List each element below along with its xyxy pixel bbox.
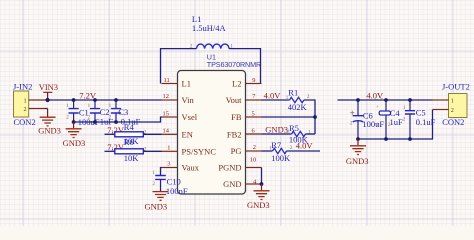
pin 14 EN bbox=[162, 127, 193, 139]
svg-text:+: + bbox=[376, 105, 379, 110]
svg-text:100K: 100K bbox=[271, 153, 291, 163]
wire R4 right to EN bbox=[144, 133, 162, 135]
node VIN3 junction bbox=[46, 98, 50, 102]
node C6 top bbox=[356, 98, 360, 102]
svg-text:4.0V: 4.0V bbox=[264, 91, 282, 101]
svg-text:11: 11 bbox=[164, 77, 170, 84]
wire PGND/GND down bbox=[261, 168, 263, 185]
connector J-IN2 bbox=[13, 81, 36, 127]
node FB junction bbox=[313, 115, 317, 119]
wire Vout to R1 bbox=[262, 99, 290, 101]
svg-text:Vsel: Vsel bbox=[182, 112, 198, 122]
svg-text:0.1uF: 0.1uF bbox=[416, 117, 436, 127]
resistor R6 bbox=[111, 137, 147, 163]
resistor R7 bbox=[269, 140, 293, 163]
svg-text:TPS63070RNMR: TPS63070RNMR bbox=[207, 60, 261, 69]
svg-text:1: 1 bbox=[24, 97, 27, 104]
svg-text:FB: FB bbox=[231, 112, 242, 122]
svg-text:GND3: GND3 bbox=[265, 124, 288, 134]
resistor R5 bbox=[287, 123, 311, 145]
node C2 bottom bbox=[93, 120, 97, 124]
svg-text:6: 6 bbox=[252, 127, 255, 134]
ground GND3 (C10) bbox=[145, 192, 169, 212]
svg-text:Vin: Vin bbox=[182, 95, 195, 105]
wire R5 to FB node bbox=[306, 133, 316, 135]
svg-text:15: 15 bbox=[163, 110, 169, 117]
resistor R1 bbox=[286, 88, 310, 112]
svg-text:2: 2 bbox=[253, 144, 256, 151]
ground GND3 (output) bbox=[346, 139, 369, 166]
node C6 bottom bbox=[356, 137, 360, 141]
connector J-OUT2 bbox=[442, 81, 470, 127]
svg-text:3: 3 bbox=[167, 161, 170, 168]
power port VIN3 bbox=[39, 82, 58, 100]
svg-text:2: 2 bbox=[24, 106, 27, 113]
pin 11 L1 bbox=[162, 77, 191, 89]
node C2 top bbox=[93, 98, 97, 102]
svg-text:R4: R4 bbox=[124, 122, 135, 132]
node C4 top bbox=[384, 98, 388, 102]
pin 2 PG bbox=[231, 144, 262, 156]
svg-text:L1: L1 bbox=[182, 79, 191, 89]
svg-text:PGND: PGND bbox=[218, 163, 241, 173]
pin 9 L2 bbox=[232, 77, 261, 89]
pin 1 PS/SYNC bbox=[162, 144, 217, 156]
capacitor C3 bbox=[109, 100, 141, 126]
svg-text:10K: 10K bbox=[124, 153, 140, 163]
svg-text:J-IN2: J-IN2 bbox=[13, 81, 32, 91]
svg-text:1uF: 1uF bbox=[390, 117, 404, 127]
pin 1 stub of J-IN2 bbox=[29, 99, 45, 101]
resistor R4 bbox=[111, 122, 147, 146]
svg-text:CON2: CON2 bbox=[14, 117, 36, 127]
ground GND3 (IC) bbox=[247, 184, 270, 210]
svg-text:GND3: GND3 bbox=[346, 156, 369, 166]
node PGND/GND junction bbox=[260, 182, 264, 186]
pin 5 FB bbox=[231, 110, 261, 122]
wire 4.0V output rail bbox=[338, 99, 433, 101]
capacitor C1 bbox=[66, 100, 100, 127]
capacitor C10 bbox=[153, 168, 188, 196]
ground GND3 (cap bank) bbox=[63, 122, 86, 148]
capacitor C5 bbox=[403, 100, 436, 139]
svg-text:CON2: CON2 bbox=[442, 117, 464, 127]
node C1 bottom bbox=[72, 120, 76, 124]
pin 3 Vaux bbox=[162, 161, 200, 173]
svg-text:EN: EN bbox=[182, 129, 193, 139]
svg-text:Vout: Vout bbox=[226, 95, 243, 105]
svg-text:C10: C10 bbox=[167, 176, 181, 186]
node C1 top bbox=[72, 98, 76, 102]
node C3 bottom bbox=[114, 120, 118, 124]
svg-text:C3: C3 bbox=[118, 107, 128, 117]
svg-text:FB2: FB2 bbox=[227, 129, 242, 139]
node C5 bottom bbox=[408, 137, 412, 141]
wire PG to R7 bbox=[262, 150, 273, 152]
wire R6 right to PS/SYNC bbox=[144, 150, 162, 152]
svg-text:1.5uH/4A: 1.5uH/4A bbox=[192, 23, 227, 33]
pin 4 GND bbox=[223, 178, 261, 189]
ground GND3 (J-IN2 pin2) bbox=[38, 109, 61, 136]
pin 10 PGND bbox=[218, 157, 261, 173]
wire output bottom rail bbox=[358, 110, 433, 140]
svg-text:VIN3: VIN3 bbox=[39, 82, 58, 92]
pin 15 Vsel bbox=[162, 110, 198, 122]
wire FB to node bbox=[262, 116, 316, 118]
svg-text:100uF: 100uF bbox=[362, 119, 384, 129]
pin 7 Vout bbox=[226, 93, 262, 105]
pin 12 Vin bbox=[162, 93, 195, 105]
svg-text:R7: R7 bbox=[271, 140, 281, 150]
svg-text:10: 10 bbox=[250, 157, 256, 164]
svg-text:R1: R1 bbox=[288, 88, 298, 98]
svg-text:Vaux: Vaux bbox=[182, 163, 200, 173]
capacitor C6 bbox=[350, 100, 385, 139]
wire FB2 to R5 bbox=[262, 133, 292, 135]
svg-text:5: 5 bbox=[252, 110, 255, 117]
capacitor C2 bbox=[88, 100, 114, 127]
svg-text:12: 12 bbox=[163, 93, 169, 100]
node C5 top bbox=[408, 98, 412, 102]
svg-text:4.0V: 4.0V bbox=[296, 140, 314, 150]
wire capacitor bottom rail bbox=[74, 117, 162, 122]
wire R1 to FB node bbox=[304, 100, 315, 134]
inductor L1 bbox=[161, 14, 261, 84]
op-amp U1 TPS63070RNMR body bbox=[178, 53, 262, 194]
wire VIN3 rail bbox=[45, 99, 162, 101]
svg-text:402K: 402K bbox=[288, 102, 308, 112]
svg-text:L2: L2 bbox=[232, 79, 241, 89]
node C3 top bbox=[114, 98, 118, 102]
svg-text:1: 1 bbox=[451, 98, 454, 105]
node C4 bottom bbox=[384, 137, 388, 141]
wire pin2 to ground bbox=[45, 108, 48, 110]
wire R7 to 4.0V bbox=[287, 150, 321, 152]
wire R6 left bbox=[105, 150, 115, 152]
pin 2 stub of J-OUT2 bbox=[433, 109, 449, 111]
pin 6 FB2 bbox=[227, 127, 262, 139]
svg-text:GND3: GND3 bbox=[247, 200, 270, 210]
pin 1 stub of J-OUT2 bbox=[433, 99, 449, 101]
pin 2 stub of J-IN2 bbox=[29, 108, 45, 110]
svg-text:2: 2 bbox=[451, 107, 454, 114]
svg-text:PG: PG bbox=[231, 146, 242, 156]
svg-text:9: 9 bbox=[252, 77, 255, 84]
svg-text:J-OUT2: J-OUT2 bbox=[442, 81, 470, 91]
svg-text:GND3: GND3 bbox=[38, 126, 61, 136]
svg-text:GND: GND bbox=[223, 179, 241, 189]
capacitor C4 bbox=[376, 100, 403, 139]
svg-text:PS/SYNC: PS/SYNC bbox=[182, 146, 217, 156]
svg-text:100nF: 100nF bbox=[166, 186, 188, 196]
svg-text:1: 1 bbox=[167, 144, 170, 151]
svg-text:GND3: GND3 bbox=[145, 202, 168, 212]
svg-text:R6: R6 bbox=[124, 137, 134, 147]
svg-text:GND3: GND3 bbox=[63, 138, 86, 148]
wire R4 left bbox=[105, 133, 115, 135]
svg-text:14: 14 bbox=[163, 127, 170, 134]
